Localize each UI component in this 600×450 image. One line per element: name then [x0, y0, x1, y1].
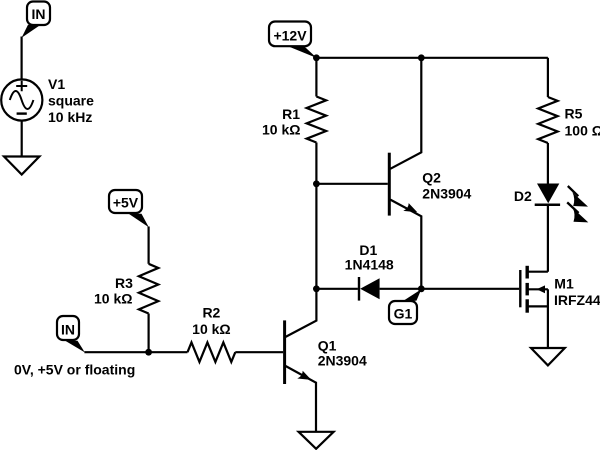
wire to Q2 base — [316, 183, 387, 185]
diode D1 1N4148 — [359, 277, 380, 301]
wire M1 source to ground — [547, 289, 549, 348]
resistor R1 — [307, 97, 327, 143]
voltage source V1 — [1, 79, 42, 120]
svg-text:10 kΩ: 10 kΩ — [262, 122, 300, 138]
LED D2 — [535, 184, 560, 205]
wire node to D1 cathode — [316, 288, 358, 290]
junction node G1 — [418, 285, 425, 292]
ground (below Q1) — [299, 432, 334, 449]
wire R2 to Q1 base — [235, 351, 283, 353]
LED light arrow 1 — [568, 186, 588, 207]
svg-text:2N3904: 2N3904 — [422, 185, 471, 201]
wire D2 cathode to M1 drain — [547, 205, 549, 272]
svg-text:+5V: +5V — [113, 195, 139, 211]
MOSFET M1 IRFZ44 — [520, 266, 548, 313]
resistor R5 — [538, 97, 558, 143]
svg-text:IRFZ44: IRFZ44 — [554, 292, 600, 308]
svg-text:M1: M1 — [554, 275, 574, 291]
junction node at Q2 collector on rail — [418, 54, 425, 61]
wire V1 to ground — [21, 121, 23, 157]
transistor Q1 2N3904 — [285, 289, 317, 432]
label R3 10 kΩ — [94, 275, 133, 307]
transistor Q2 2N3904 — [389, 58, 421, 289]
svg-text:D2: D2 — [514, 188, 532, 204]
svg-text:R5: R5 — [565, 106, 583, 122]
wire +5V flag to R3 — [148, 227, 150, 264]
wire rail corner down to R5 — [547, 58, 549, 97]
junction node at +12V flag — [313, 54, 320, 61]
junction node Q2 base / R1 — [313, 180, 320, 187]
svg-text:Q1: Q1 — [318, 338, 337, 354]
svg-text:10 kΩ: 10 kΩ — [94, 291, 132, 307]
wire R1 bottom down to Q1 collector node — [315, 143, 317, 289]
svg-text:100 Ω: 100 Ω — [565, 123, 600, 139]
svg-text:2N3904: 2N3904 — [318, 353, 367, 369]
label R5 100 Ω — [565, 106, 600, 139]
label R1 10 kΩ — [262, 106, 300, 138]
svg-text:R3: R3 — [115, 275, 133, 291]
label Q1 2N3904 — [318, 338, 367, 369]
ground (below V1) — [4, 157, 39, 175]
resistor R3 — [139, 264, 159, 314]
net flag G1 — [389, 289, 421, 324]
label R2 10 kΩ — [192, 305, 230, 338]
svg-text:1N4148: 1N4148 — [345, 257, 394, 273]
label V1 square 10 kHz — [48, 76, 94, 125]
net flag +12V — [269, 22, 317, 59]
junction node R3/R2/IN — [145, 349, 152, 356]
svg-text:square: square — [48, 93, 94, 109]
wire IN flag to V1 — [21, 37, 23, 81]
wire +12V supply rail — [316, 57, 548, 59]
net flag +5V — [109, 190, 149, 227]
svg-text:0V, +5V or floating: 0V, +5V or floating — [14, 362, 135, 378]
wire R5 to D2 — [547, 143, 549, 184]
svg-text:R1: R1 — [282, 106, 300, 122]
wire D1 anode to G1 node — [380, 288, 422, 290]
svg-text:V1: V1 — [48, 76, 65, 92]
wire IN flag to R2 through junction — [84, 351, 187, 353]
svg-text:10 kΩ: 10 kΩ — [192, 321, 230, 337]
junction node Q1 collector / D1 anode-side — [313, 285, 320, 292]
wire R3 to junction — [148, 314, 150, 353]
label M1 IRFZ44 — [554, 275, 600, 308]
label Q2 2N3904 — [422, 169, 471, 201]
wire G1 node to M1 gate — [421, 288, 519, 290]
svg-text:D1: D1 — [359, 242, 377, 258]
svg-text:Q2: Q2 — [422, 169, 441, 185]
net flag IN (at R2 input) — [57, 316, 85, 352]
svg-text:R2: R2 — [202, 305, 220, 321]
LED light arrow 2 — [567, 202, 588, 222]
svg-text:IN: IN — [61, 322, 75, 338]
svg-text:10 kHz: 10 kHz — [48, 109, 92, 125]
svg-text:IN: IN — [32, 6, 46, 22]
ground (below M1) — [531, 348, 565, 365]
svg-text:G1: G1 — [394, 306, 413, 322]
wire rail down to R1 — [315, 58, 317, 97]
label D1 1N4148 — [345, 242, 394, 273]
net flag IN (top-left, at V1) — [22, 2, 50, 38]
resistor R2 — [188, 342, 236, 362]
svg-text:+12V: +12V — [273, 28, 307, 44]
